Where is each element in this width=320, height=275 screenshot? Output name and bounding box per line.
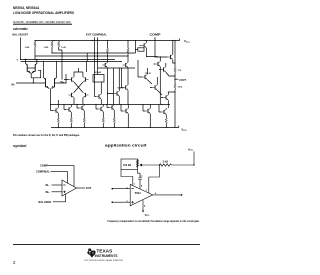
svg-text:2 kΩ: 2 kΩ [163,160,168,163]
svg-text:1 kΩ: 1 kΩ [25,47,30,49]
transistor QA [102,62,107,67]
transistor Q3 (mirror pair left) [26,64,28,71]
wire QB emitter down [127,68,129,85]
wire BALANCE pin [53,194,66,202]
wire: VCC+ top rail [35,39,180,41]
wire: mid vertical 1b [113,68,115,105]
svg-text:Pin numbers shown are for the: Pin numbers shown are for the D, JG, P, … [13,134,80,137]
transistor Q25 [161,109,166,114]
transistor Q20 [79,105,84,110]
wire: bias rail B [21,61,123,63]
wire Q18 [51,100,59,118]
header rule [13,24,72,25]
wire Q12 connections [122,68,129,105]
transistor Q22 [109,105,114,110]
svg-text:TEXAS: TEXAS [96,248,112,253]
svg-text:application circuit: application circuit [105,143,148,147]
svg-text:BAL ADJUST: BAL ADJUST [13,34,29,37]
svg-text:560 Ω: 560 Ω [118,88,124,90]
wire: EXT COMP vertical 2 [97,41,99,75]
wire R13 to rail [70,123,72,128]
wire R15 to rail [102,123,104,128]
minus sign inside [131,188,134,190]
resistor R14 [83,118,85,124]
svg-text:COMP/BAL: COMP/BAL [36,170,50,174]
transistor QC [155,61,160,66]
resistor R1 [34,41,36,47]
wire pin 4 down [142,200,144,211]
transistor Q17 [163,95,168,100]
wire cross-couple X [74,82,83,92]
wire: node row y53 [52,53,136,62]
wire Q17 connections [161,92,175,108]
wire Q7/Q8 emitters [74,98,83,105]
wire: BAL ADJUST pin down [20,38,22,60]
wire Q9 connections [95,77,102,105]
wire: COMP pin stub [154,37,156,40]
capacitor C1 [138,178,142,180]
wire Q22 [107,105,114,118]
transistor Q8 [83,92,88,97]
svg-text:VCC+: VCC+ [188,149,194,152]
minus sign inside op-amp [63,184,65,186]
wire wiper to R2 [142,164,161,166]
wire Q10 connections [140,41,159,57]
wire IN+ pin [52,191,63,193]
transistor Q14 [168,54,173,59]
transistor Q16 [152,85,157,90]
wire: mid vertical 3 [135,41,137,54]
svg-text:4.5 kΩ: 4.5 kΩ [95,71,102,74]
wire R1 top/bottom [34,41,36,60]
TI logo white ti [89,250,93,254]
wire Q14 collector/emitter [173,41,175,64]
transistor Q10 [141,43,146,48]
plus sign inside [131,201,134,204]
svg-text:7: 7 [146,190,148,192]
junction dots mirror pair [25,59,26,60]
wire QC connections [154,57,161,105]
wire R16 to rail [113,123,115,128]
transistor Q15 [161,67,166,72]
junction dot VCC+ node [193,164,194,165]
wire Q20 [77,105,84,118]
svg-text:IN+: IN+ [46,190,51,194]
transistor Q21 [98,106,103,111]
wire pot zigzag bottom to cap [138,170,141,178]
svg-text:IN−: IN− [46,183,51,187]
wire Q13 connections [138,60,152,84]
transistor Q4 (mirror pair right) [34,64,36,71]
svg-text:VCC−: VCC− [145,214,151,217]
svg-text:100 kΩ: 100 kΩ [123,164,131,167]
resistor R8 [127,48,129,54]
wire: EXT COMP vertical 1 [94,41,96,78]
wire: EXT COMP pin stubs [95,37,98,40]
junction dots on rails [20,40,176,128]
transistor Q7 [69,92,74,97]
wire: mid row y68 [98,67,135,69]
svg-text:13 Ω: 13 Ω [178,86,183,88]
wire R2 to VCC+ node [172,164,195,166]
svg-text:2: 2 [13,260,16,265]
wire Q24 [143,105,150,128]
transistor Q24 [145,108,150,113]
TI logo emblem [87,249,95,258]
potentiometer R1 body box [121,159,138,170]
op-amp U1 triangle [130,184,153,206]
wire: VCC- bottom rail [51,126,179,128]
wire R20 to rail [165,124,167,128]
wire QA emitter down [107,68,109,105]
wire IN- pin [52,184,63,186]
op-amp U1 triangle [62,180,77,196]
resistor R2 [51,41,53,47]
resistor R15 [102,118,104,124]
wire: input pair tail [50,88,52,106]
svg-text:OUT: OUT [86,186,92,190]
resistor R13 [70,118,72,124]
svg-text:4: 4 [144,205,146,208]
resistor R3 [58,41,60,47]
svg-text:110 Ω: 110 Ω [145,73,151,75]
svg-text:7 Ω: 7 Ω [178,70,182,72]
pin 4 arrowhead [142,211,144,213]
svg-text:VCC+: VCC+ [184,39,191,43]
transistor QB [123,62,128,67]
transistor Q13 [142,74,147,79]
wire R3 top/bottom [59,41,87,80]
wire Q19 [64,105,71,118]
wire: OUT stub [175,78,178,80]
transistor Q5 [69,77,74,82]
transistor Q18 [53,108,58,113]
svg-text:IN−: IN− [12,84,16,87]
svg-text:COMP: COMP [40,164,48,168]
svg-text:BALANCE: BALANCE [39,200,52,204]
wire: mid vertical 1 + R7 leads [107,41,109,63]
svg-text:SLOS070B – NOVEMBER 1979 – REV: SLOS070B – NOVEMBER 1979 – REVISED JANUA… [13,21,71,24]
wire COMP pin [48,166,75,187]
wire COMP/BAL pin [51,172,68,184]
wire Q16 connections [150,77,162,95]
resistor R2 [160,164,172,166]
resistor R6 box [138,48,144,51]
box R5 [93,75,104,83]
resistor R20 [165,118,167,124]
wire R2 top/bottom [51,41,53,54]
potentiometer R1 element zigzag [137,160,139,168]
wire R12 to rail [57,123,59,128]
wire Q15 connections [159,63,175,76]
svg-text:schematic: schematic [13,27,28,31]
transistor Q9 [96,94,101,99]
svg-text:8: 8 [141,185,143,187]
wire Q5/Q6 bases [64,68,83,80]
wire IN+ to pin 3 [112,201,130,203]
resistor R16 [113,118,115,124]
wire: mid vertical 2 + R8 leads [127,41,129,63]
resistor R12 [57,118,59,124]
transistor Q2 (input pair right) [54,78,56,87]
svg-text:symbol: symbol [13,144,26,148]
junction dot wiper node [159,164,160,165]
svg-text:CC: CC [140,175,144,177]
svg-text:COMP: COMP [150,34,162,37]
junction dot QC collector [160,56,161,57]
wire Q21 [96,105,103,118]
wire R14 to rail [83,123,85,128]
wire R6 to bus [136,49,138,51]
svg-text:Frequency compensation is not: Frequency compensation is not utilized; … [108,220,200,223]
wire Q23 [121,105,128,128]
plus sign inside op-amp [63,191,65,193]
wire IN- to pin 2 [112,188,130,190]
wire cap to pin 8 [139,179,141,189]
resistor R22 [174,67,176,73]
footer rule [13,243,200,246]
transistor Q1 (input pair left) [45,78,47,87]
wire Q11 connections [108,68,120,105]
svg-text:1: 1 [134,183,136,185]
wire: COMP run to Q14 [155,41,168,58]
transistor Q11 [114,91,119,96]
svg-text:OUT: OUT [179,79,187,82]
resistor R23 [174,84,176,90]
wire: node row y56 [35,55,128,57]
wire pot left leg to pin 1 [121,170,133,186]
wire mirror emitter loop [31,70,41,83]
svg-text:POST OFFICE BOX 655303 • DALLA: POST OFFICE BOX 655303 • DALLAS, TEXAS 7… [84,259,123,262]
transistor Q12 [123,85,128,90]
potentiometer wiper arrow [140,164,142,166]
svg-text:LOW-NOISE OPERATIONAL AMPLIFIE: LOW-NOISE OPERATIONAL AMPLIFIERS [13,10,74,15]
wire OUT pin [77,187,86,189]
transistor Q23 [123,108,128,113]
transistor Q6 [83,77,88,82]
wire: base row y104.5 [51,104,171,106]
resistor R7 [106,48,108,54]
transistor Q19 [66,107,71,112]
svg-text:VCC−: VCC− [181,127,188,131]
svg-text:INSTRUMENTS: INSTRUMENTS [95,254,118,258]
wire VCC+ down [193,152,195,166]
svg-text:1 kΩ: 1 kΩ [44,47,49,49]
svg-text:8: 8 [17,59,19,61]
wire VCC+ to pin 7 [149,165,160,193]
wire: right bus [174,41,176,128]
wire Q25 [159,105,166,119]
wire: IN+ input [59,74,67,83]
wire: bias rail A [21,59,116,61]
wire OUT pin 6 [153,194,182,196]
wire: IN- input [16,82,42,84]
svg-text:7 kΩ: 7 kΩ [61,47,66,49]
svg-text:EXT COMP/BAL: EXT COMP/BAL [86,34,108,37]
svg-text:5534: 5534 [135,191,141,195]
wire Q3/Q4 bases tied [27,67,35,69]
